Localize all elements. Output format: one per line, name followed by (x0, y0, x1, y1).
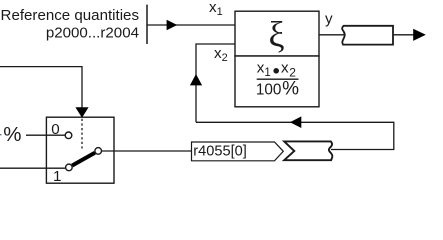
wire reference to switch (0, 67, 82, 108)
wire input 1 (0, 167, 65, 169)
svg-text:2: 2 (289, 65, 296, 79)
feedback arrow (290, 116, 301, 128)
contact 1 (66, 164, 73, 171)
reference bar (146, 5, 148, 44)
svg-text:Reference quantities: Reference quantities (1, 7, 139, 24)
svg-text:%: % (3, 123, 21, 146)
wire x2 input (196, 44, 235, 122)
switch block S1 (46, 117, 114, 183)
svg-text:1: 1 (264, 67, 270, 79)
label Reference quantities (1, 7, 139, 41)
svg-text:x: x (281, 59, 289, 76)
svg-text:%: % (282, 79, 299, 100)
svg-text:y: y (325, 11, 333, 28)
wire feedback from banner (196, 122, 394, 149)
wire y output (319, 34, 346, 36)
wire switch output (102, 150, 192, 152)
switch dashed control line (81, 119, 83, 149)
wire x1 input (147, 24, 235, 26)
contact 0 (65, 132, 72, 139)
connector banner to other sheet (top) (342, 26, 393, 45)
svg-text:100: 100 (256, 82, 282, 99)
contact common (95, 148, 102, 155)
svg-text:r4055[0]: r4055[0] (193, 143, 247, 159)
switch lever (72, 153, 95, 166)
crop tick (0, 134, 2, 136)
svg-text:p2000...r2004: p2000...r2004 (46, 24, 139, 41)
formula box (235, 56, 319, 107)
multiplier block U1 (235, 11, 319, 56)
wire y output arrow (393, 34, 416, 36)
connector chevron banner (bottom) (284, 141, 332, 160)
wire % input (26, 134, 65, 136)
svg-text:1: 1 (53, 168, 61, 185)
svg-text:ξ: ξ (268, 15, 284, 55)
parameter r4055[0] (192, 142, 284, 161)
